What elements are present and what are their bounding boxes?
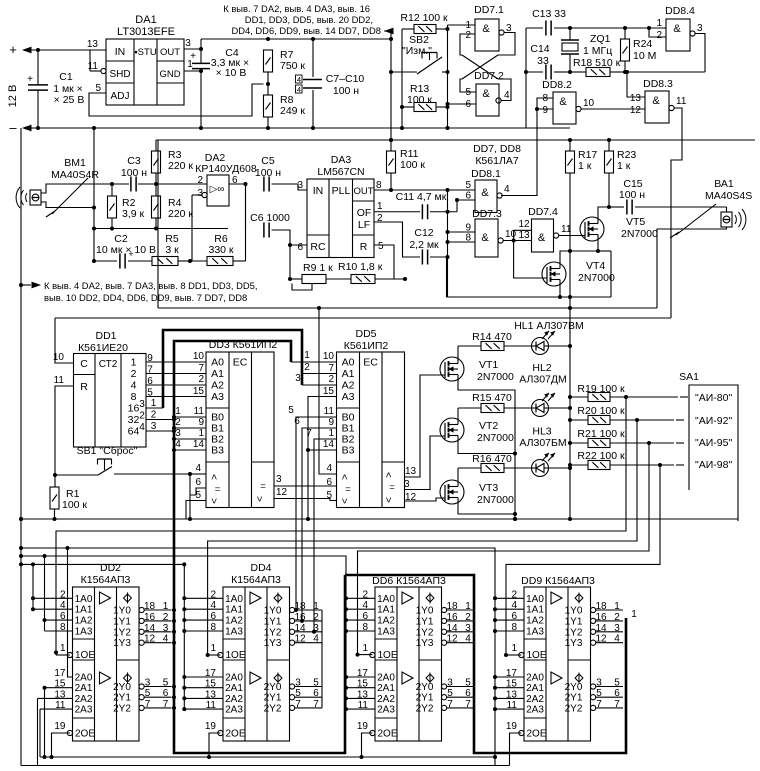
bottom ground rail 1 — [40, 756, 495, 758]
svg-text:1: 1 — [151, 398, 157, 409]
svg-text:3: 3 — [145, 678, 151, 689]
svg-text:LF: LF — [358, 219, 370, 231]
input group line y564 to DD4 — [21, 564, 184, 710]
svg-text:100 к: 100 к — [62, 499, 87, 511]
svg-text:2OE: 2OE — [75, 729, 95, 740]
svg-text:100 н: 100 н — [255, 167, 281, 179]
DD2 outputs to bus riser — [172, 608, 176, 612]
svg-text:5: 5 — [313, 678, 319, 689]
svg-text:2Y1: 2Y1 — [113, 693, 131, 704]
svg-text:2Y2: 2Y2 — [264, 703, 282, 714]
svg-text:5: 5 — [95, 83, 101, 94]
resistor R2 — [111, 184, 113, 196]
svg-text:1: 1 — [175, 406, 181, 417]
svg-text:8: 8 — [376, 180, 382, 191]
svg-text:12: 12 — [446, 634, 458, 645]
svg-text:1Y2: 1Y2 — [416, 627, 434, 638]
svg-text:R24: R24 — [633, 38, 652, 50]
DD7.3 pin8 wire — [448, 241, 476, 243]
svg-text:3: 3 — [447, 678, 453, 689]
svg-text:7: 7 — [313, 699, 319, 710]
svg-text:19: 19 — [205, 721, 217, 732]
svg-text:A2: A2 — [211, 380, 224, 392]
svg-text:3: 3 — [163, 623, 169, 634]
svg-text:7: 7 — [295, 699, 301, 710]
transistor VT2 2N7000 — [440, 418, 464, 442]
svg-text:3: 3 — [295, 678, 301, 689]
DD5 A input wires — [291, 361, 337, 363]
svg-text:1A3: 1A3 — [526, 627, 544, 638]
DD9 input wires from riser — [495, 597, 524, 599]
resistor R3 — [155, 140, 157, 151]
DD4 outputs riser and taps — [294, 608, 298, 612]
svg-text:VT3: VT3 — [479, 482, 498, 494]
svg-text:A3: A3 — [211, 391, 224, 403]
svg-text:4: 4 — [163, 634, 169, 645]
svg-text:10: 10 — [583, 98, 595, 109]
svg-text:14: 14 — [595, 623, 607, 634]
svg-text:14: 14 — [144, 623, 156, 634]
svg-text:11: 11 — [54, 375, 65, 386]
transistor VT5 2N7000 — [580, 217, 604, 241]
svg-text:1A3: 1A3 — [75, 627, 93, 638]
svg-text:4: 4 — [465, 634, 471, 645]
svg-text:2: 2 — [151, 410, 157, 421]
svg-text:5: 5 — [614, 678, 620, 689]
svg-text:R19 100 к: R19 100 к — [577, 383, 625, 395]
svg-text:1A0: 1A0 — [75, 594, 93, 605]
svg-text:18: 18 — [446, 601, 458, 612]
feedback wire to DA2 output — [245, 184, 247, 261]
svg-text:&: & — [673, 23, 681, 35]
svg-text:100 н: 100 н — [619, 189, 645, 201]
capacitor C4 — [200, 39, 202, 63]
svg-text:OF: OF — [357, 207, 372, 219]
svg-text:9: 9 — [328, 417, 334, 428]
svg-text:1: 1 — [163, 601, 169, 612]
minus feed vertical at x94 — [93, 128, 95, 261]
DD2 input wires from left verticals — [32, 564, 34, 609]
svg-text:ВМ1: ВМ1 — [64, 157, 86, 169]
svg-text:249 к: 249 к — [280, 105, 305, 117]
svg-text:2: 2 — [163, 612, 169, 623]
svg-text:5: 5 — [465, 87, 471, 98]
osc node B wire — [625, 71, 705, 73]
svg-text:DD1: DD1 — [95, 330, 116, 342]
oscillator left node vertical — [525, 28, 527, 128]
svg-text:5: 5 — [295, 688, 301, 699]
svg-text:2: 2 — [328, 374, 334, 385]
DD5 B input wires from DD4 outputs — [296, 417, 337, 610]
pin 1 wire — [448, 24, 476, 26]
svg-text:13: 13 — [87, 39, 99, 50]
svg-text:DD6 К1564АП3: DD6 К1564АП3 — [372, 575, 446, 587]
svg-text:=: = — [215, 484, 221, 495]
svg-text:12 В: 12 В — [7, 85, 19, 108]
svg-text:19: 19 — [54, 721, 66, 732]
svg-text:DA3: DA3 — [331, 154, 352, 166]
svg-text:1Y3: 1Y3 — [264, 638, 282, 649]
svg-text:АЛ307БМ: АЛ307БМ — [519, 437, 566, 449]
DD5 B3 tie low — [308, 449, 337, 451]
svg-text:220 к: 220 к — [168, 160, 193, 172]
svg-text:выв. 10 DD2, DD4, DD6, DD9, вы: выв. 10 DD2, DD4, DD6, DD9, выв. 7 DD7, … — [44, 292, 247, 303]
svg-text:IN: IN — [115, 46, 126, 58]
capacitor C1 — [36, 48, 40, 52]
svg-text:2: 2 — [197, 175, 203, 186]
svg-text:2: 2 — [139, 411, 145, 422]
svg-text:1Y1: 1Y1 — [565, 616, 583, 627]
svg-text:4: 4 — [504, 90, 510, 101]
DD9 OE wires — [504, 653, 508, 657]
svg-text:33: 33 — [537, 55, 549, 67]
svg-text:9: 9 — [542, 105, 548, 116]
svg-text:SA1: SA1 — [679, 371, 699, 383]
svg-text:=: = — [389, 482, 395, 493]
thick bus DD1 to DD5 upper — [163, 330, 302, 408]
svg-text:11: 11 — [88, 61, 99, 72]
svg-text:R12 100 к: R12 100 к — [400, 12, 448, 24]
DD4 OE wires — [206, 653, 210, 657]
transistor VT1 2N7000 — [440, 357, 464, 381]
svg-text:1OE: 1OE — [526, 650, 546, 661]
svg-text:HL1 АЛ307ВМ: HL1 АЛ307ВМ — [514, 320, 584, 332]
svg-text:330 к: 330 к — [208, 244, 233, 256]
DD4 input wires from riser — [184, 597, 223, 599]
svg-text:DD4: DD4 — [250, 562, 271, 574]
ground rail y519 — [21, 518, 738, 520]
SA1 column verticals — [56, 397, 626, 653]
svg-text:19: 19 — [357, 721, 369, 732]
svg-text:DA1: DA1 — [135, 14, 156, 26]
svg-text:1A0: 1A0 — [377, 594, 395, 605]
svg-text:2,2 мк: 2,2 мк — [409, 239, 439, 251]
svg-text:1: 1 — [210, 643, 216, 654]
svg-text:2: 2 — [465, 30, 471, 41]
svg-text:2A2: 2A2 — [225, 694, 243, 705]
svg-text:10 М: 10 М — [633, 50, 656, 62]
svg-text:MA40S4R: MA40S4R — [51, 169, 99, 181]
svg-text:5: 5 — [465, 678, 471, 689]
svg-text:DD1, DD3, DD5, выв. 20 DD2,: DD1, DD3, DD5, выв. 20 DD2, — [245, 14, 373, 25]
svg-text:1Y3: 1Y3 — [565, 638, 583, 649]
svg-text:6: 6 — [313, 688, 319, 699]
DD3 B input wires from bus — [174, 416, 206, 418]
svg-text:VT2: VT2 — [479, 420, 498, 432]
svg-text:1: 1 — [328, 428, 334, 439]
svg-text:К выв. 7 DA2, выв. 4 DA3, выв.: К выв. 7 DA2, выв. 4 DA3, выв. 16 — [223, 3, 370, 14]
svg-text:"АИ-92": "АИ-92" — [695, 415, 732, 427]
svg-text:C11 4,7 мк: C11 4,7 мк — [396, 191, 447, 203]
svg-text:5: 5 — [447, 688, 453, 699]
svg-text:16: 16 — [595, 612, 607, 623]
input group line y556 to DD6 — [21, 556, 346, 710]
svg-text:C7–C10: C7–C10 — [326, 73, 365, 85]
svg-text:2Y1: 2Y1 — [565, 693, 583, 704]
pin 12 wire from DD8.2 output — [581, 108, 645, 110]
svg-text:R9 1 к: R9 1 к — [303, 262, 333, 274]
resistor R7 — [264, 50, 273, 72]
svg-text:4: 4 — [504, 184, 510, 195]
svg-text:12: 12 — [595, 634, 607, 645]
DD7.3 pin9 wire — [448, 231, 476, 233]
svg-text:OUT: OUT — [353, 186, 373, 197]
svg-text:▷∞: ▷∞ — [210, 184, 225, 195]
svg-text:DD7.3: DD7.3 — [472, 208, 502, 220]
svg-text:5: 5 — [163, 678, 169, 689]
svg-text:2N7000: 2N7000 — [477, 494, 514, 506]
transistor VT4 2N7000 — [542, 262, 566, 286]
svg-text:4: 4 — [313, 634, 319, 645]
svg-text:1Y0: 1Y0 — [113, 606, 131, 617]
svg-text:DD2: DD2 — [100, 562, 121, 574]
svg-text:&: & — [652, 95, 660, 107]
svg-text:DD9 К1564АП3: DD9 К1564АП3 — [521, 575, 595, 587]
svg-text:7: 7 — [447, 699, 453, 710]
svg-text:A0: A0 — [342, 357, 355, 369]
svg-text:DD7.2: DD7.2 — [474, 70, 504, 82]
svg-text:4: 4 — [326, 463, 332, 474]
svg-text:"АИ-98": "АИ-98" — [695, 459, 732, 471]
svg-text:VT4: VT4 — [586, 260, 605, 272]
svg-text:2A0: 2A0 — [526, 673, 544, 684]
DD1 output wires to DD3 — [146, 361, 206, 363]
svg-text:1Y0: 1Y0 — [416, 606, 434, 617]
svg-text:14: 14 — [193, 439, 205, 450]
svg-text:К выв. 4 DA2, выв. 7 DA3, выв.: К выв. 4 DA2, выв. 7 DA3, выв. 8 DD1, DD… — [44, 280, 257, 291]
svg-text:▪STU: ▪STU — [134, 47, 157, 58]
svg-text:&: & — [481, 232, 489, 244]
resistor R17 — [566, 151, 575, 173]
svg-text:1: 1 — [465, 601, 471, 612]
svg-text:2A3: 2A3 — [75, 705, 93, 716]
svg-text:2Y2: 2Y2 — [113, 703, 131, 714]
SA1 contact dashes — [680, 396, 688, 398]
svg-text:1: 1 — [362, 643, 368, 654]
svg-text:15: 15 — [323, 386, 335, 397]
svg-text:DD5: DD5 — [355, 328, 376, 340]
svg-text:ЕС: ЕС — [233, 357, 248, 369]
svg-text:16: 16 — [144, 612, 156, 623]
svg-text:10: 10 — [323, 351, 335, 362]
R9 lower stub — [292, 284, 312, 291]
svg-text:C5: C5 — [261, 155, 275, 167]
svg-text:GND: GND — [159, 69, 180, 80]
svg-text:100 к: 100 к — [400, 159, 425, 171]
svg-text:A2: A2 — [342, 380, 355, 392]
svg-text:2A2: 2A2 — [377, 694, 395, 705]
VT5 source to rail vertical — [610, 251, 612, 297]
svg-text:2: 2 — [465, 612, 471, 623]
svg-text:<: < — [340, 498, 351, 504]
svg-text:3: 3 — [465, 623, 471, 634]
svg-text:5: 5 — [378, 241, 384, 252]
wire R12 R13 left vertical — [401, 29, 403, 128]
svg-text:A1: A1 — [211, 368, 224, 380]
svg-text:&: & — [559, 96, 567, 108]
svg-text:3: 3 — [175, 428, 181, 439]
svg-text:100 н: 100 н — [333, 85, 359, 97]
svg-text:11: 11 — [676, 96, 687, 107]
svg-text:6: 6 — [614, 688, 620, 699]
svg-text:2A2: 2A2 — [526, 694, 544, 705]
svg-text:1Y3: 1Y3 — [416, 638, 434, 649]
svg-text:2OE: 2OE — [377, 729, 397, 740]
svg-text:7: 7 — [306, 428, 312, 439]
svg-text:1A2: 1A2 — [526, 616, 544, 627]
svg-text:12: 12 — [294, 634, 306, 645]
svg-text:1Y2: 1Y2 — [113, 627, 131, 638]
svg-text:7: 7 — [163, 699, 169, 710]
svg-text:C1: C1 — [59, 71, 73, 83]
svg-text:R10 1,8 к: R10 1,8 к — [338, 261, 383, 273]
svg-text:&: & — [538, 232, 546, 244]
DD8.4 output feedback wire — [695, 34, 705, 73]
svg-text:× 25 В: × 25 В — [54, 94, 85, 106]
svg-text:11: 11 — [561, 224, 572, 235]
svg-text:+: + — [27, 74, 33, 85]
svg-text:C12: C12 — [414, 227, 433, 239]
BA1 adjust arrow — [676, 204, 716, 235]
svg-text:RC: RC — [310, 241, 326, 253]
DD8.1 pin6 wire — [457, 199, 475, 201]
svg-text:16: 16 — [446, 612, 458, 623]
svg-text:1Y2: 1Y2 — [565, 627, 583, 638]
svg-text:7: 7 — [465, 699, 471, 710]
svg-text:10 мк × 10 В: 10 мк × 10 В — [96, 244, 156, 256]
svg-text:3: 3 — [185, 38, 191, 49]
svg-text:5: 5 — [145, 688, 151, 699]
svg-text:2: 2 — [614, 612, 620, 623]
svg-text:C3: C3 — [127, 155, 141, 167]
svg-text:<: < — [255, 496, 266, 502]
svg-text:2A0: 2A0 — [75, 673, 93, 684]
svg-text:14: 14 — [294, 623, 306, 634]
input group line y548 to DD9 — [21, 548, 495, 766]
svg-text:1A1: 1A1 — [377, 605, 395, 616]
svg-text:4: 4 — [195, 463, 201, 474]
svg-text:>: > — [210, 474, 221, 480]
svg-text:VT1: VT1 — [479, 359, 498, 371]
svg-text:10: 10 — [193, 351, 205, 362]
DD6 OE wires — [356, 653, 360, 657]
svg-text:2OE: 2OE — [526, 729, 546, 740]
svg-text:× 10 В: × 10 В — [216, 67, 247, 79]
svg-text:7: 7 — [328, 363, 334, 374]
svg-text:DD7.4: DD7.4 — [528, 206, 558, 218]
svg-text:–: – — [9, 120, 17, 135]
svg-text:12: 12 — [276, 487, 288, 498]
svg-text:1OE: 1OE — [225, 650, 245, 661]
svg-text:R: R — [80, 381, 88, 393]
clock line to counter — [55, 317, 671, 319]
svg-text:3: 3 — [139, 399, 145, 410]
svg-text:13: 13 — [518, 230, 530, 241]
svg-text:5: 5 — [596, 688, 602, 699]
ground annotation arrow — [19, 283, 23, 287]
svg-text:2A1: 2A1 — [75, 683, 93, 694]
svg-text:1A1: 1A1 — [225, 605, 243, 616]
svg-text:&: & — [482, 88, 490, 100]
VT4 gate wire — [514, 241, 547, 279]
svg-text:3: 3 — [697, 23, 703, 34]
svg-text:A1: A1 — [342, 368, 355, 380]
svg-text:6: 6 — [294, 416, 300, 427]
svg-text:3: 3 — [295, 373, 301, 384]
DD8.1 output wire to DD8.2 inputs — [501, 109, 537, 196]
svg-text:>: > — [384, 472, 395, 478]
svg-text:5: 5 — [326, 490, 332, 501]
VT4 drain wire — [560, 251, 570, 262]
svg-text:1: 1 — [60, 643, 66, 654]
BM1 adjust arrow — [52, 178, 88, 214]
svg-text:ВА1: ВА1 — [714, 178, 734, 190]
signal node wire — [110, 182, 114, 186]
latch cross-coupling wires — [498, 33, 515, 56]
DD7.4 pin12 wire — [514, 230, 532, 240]
svg-text:2: 2 — [304, 362, 310, 373]
svg-text:1A3: 1A3 — [377, 627, 395, 638]
svg-text:R15 470: R15 470 — [472, 392, 512, 404]
svg-text:1: 1 — [187, 59, 193, 70]
svg-text:1: 1 — [377, 201, 383, 212]
svg-text:=: = — [345, 484, 351, 495]
resistor R11 — [387, 151, 396, 173]
svg-text:К561ИП2: К561ИП2 — [344, 340, 389, 352]
svg-text:A0: A0 — [211, 357, 224, 369]
svg-text:КР140УД608: КР140УД608 — [195, 163, 257, 175]
svg-text:14: 14 — [446, 623, 458, 634]
svg-text:2Y0: 2Y0 — [113, 682, 131, 693]
svg-text:2N7000: 2N7000 — [477, 371, 514, 383]
svg-text:К1564АП3: К1564АП3 — [231, 574, 281, 586]
svg-text:VT5: VT5 — [626, 216, 645, 228]
analog common rail — [94, 228, 228, 230]
svg-text:2Y0: 2Y0 — [565, 682, 583, 693]
svg-text:1Y1: 1Y1 — [113, 616, 131, 627]
svg-text:220 к: 220 к — [168, 208, 193, 220]
svg-text:4: 4 — [139, 422, 145, 433]
svg-text:HL3: HL3 — [532, 426, 551, 438]
svg-text:2A0: 2A0 — [225, 673, 243, 684]
svg-text:1 МГц: 1 МГц — [583, 45, 612, 57]
svg-text:13: 13 — [630, 93, 642, 104]
svg-text:DD8.4: DD8.4 — [665, 5, 695, 17]
svg-text:1: 1 — [614, 601, 620, 612]
svg-text:1Y0: 1Y0 — [565, 606, 583, 617]
svg-text:2: 2 — [198, 374, 204, 385]
svg-text:5: 5 — [288, 405, 294, 416]
svg-text:12: 12 — [630, 105, 642, 116]
svg-text:6: 6 — [297, 242, 303, 253]
DD8.2 tied inputs wire — [537, 98, 553, 109]
svg-text:7: 7 — [145, 699, 151, 710]
DD2 2A input wires — [68, 548, 73, 677]
rail B y308 LED supply — [158, 307, 657, 309]
svg-text:12: 12 — [518, 219, 530, 230]
svg-text:1Y2: 1Y2 — [264, 627, 282, 638]
svg-text:3: 3 — [276, 474, 282, 485]
svg-text:SHD: SHD — [109, 69, 130, 80]
svg-text:1: 1 — [511, 643, 517, 654]
svg-text:1 к: 1 к — [578, 160, 592, 172]
svg-text:7: 7 — [596, 699, 602, 710]
svg-text:К1564АП3: К1564АП3 — [81, 574, 131, 586]
svg-text:ЕС: ЕС — [363, 357, 378, 369]
svg-text:2A2: 2A2 — [75, 694, 93, 705]
svg-text:7: 7 — [198, 363, 204, 374]
svg-text:1OE: 1OE — [75, 650, 95, 661]
